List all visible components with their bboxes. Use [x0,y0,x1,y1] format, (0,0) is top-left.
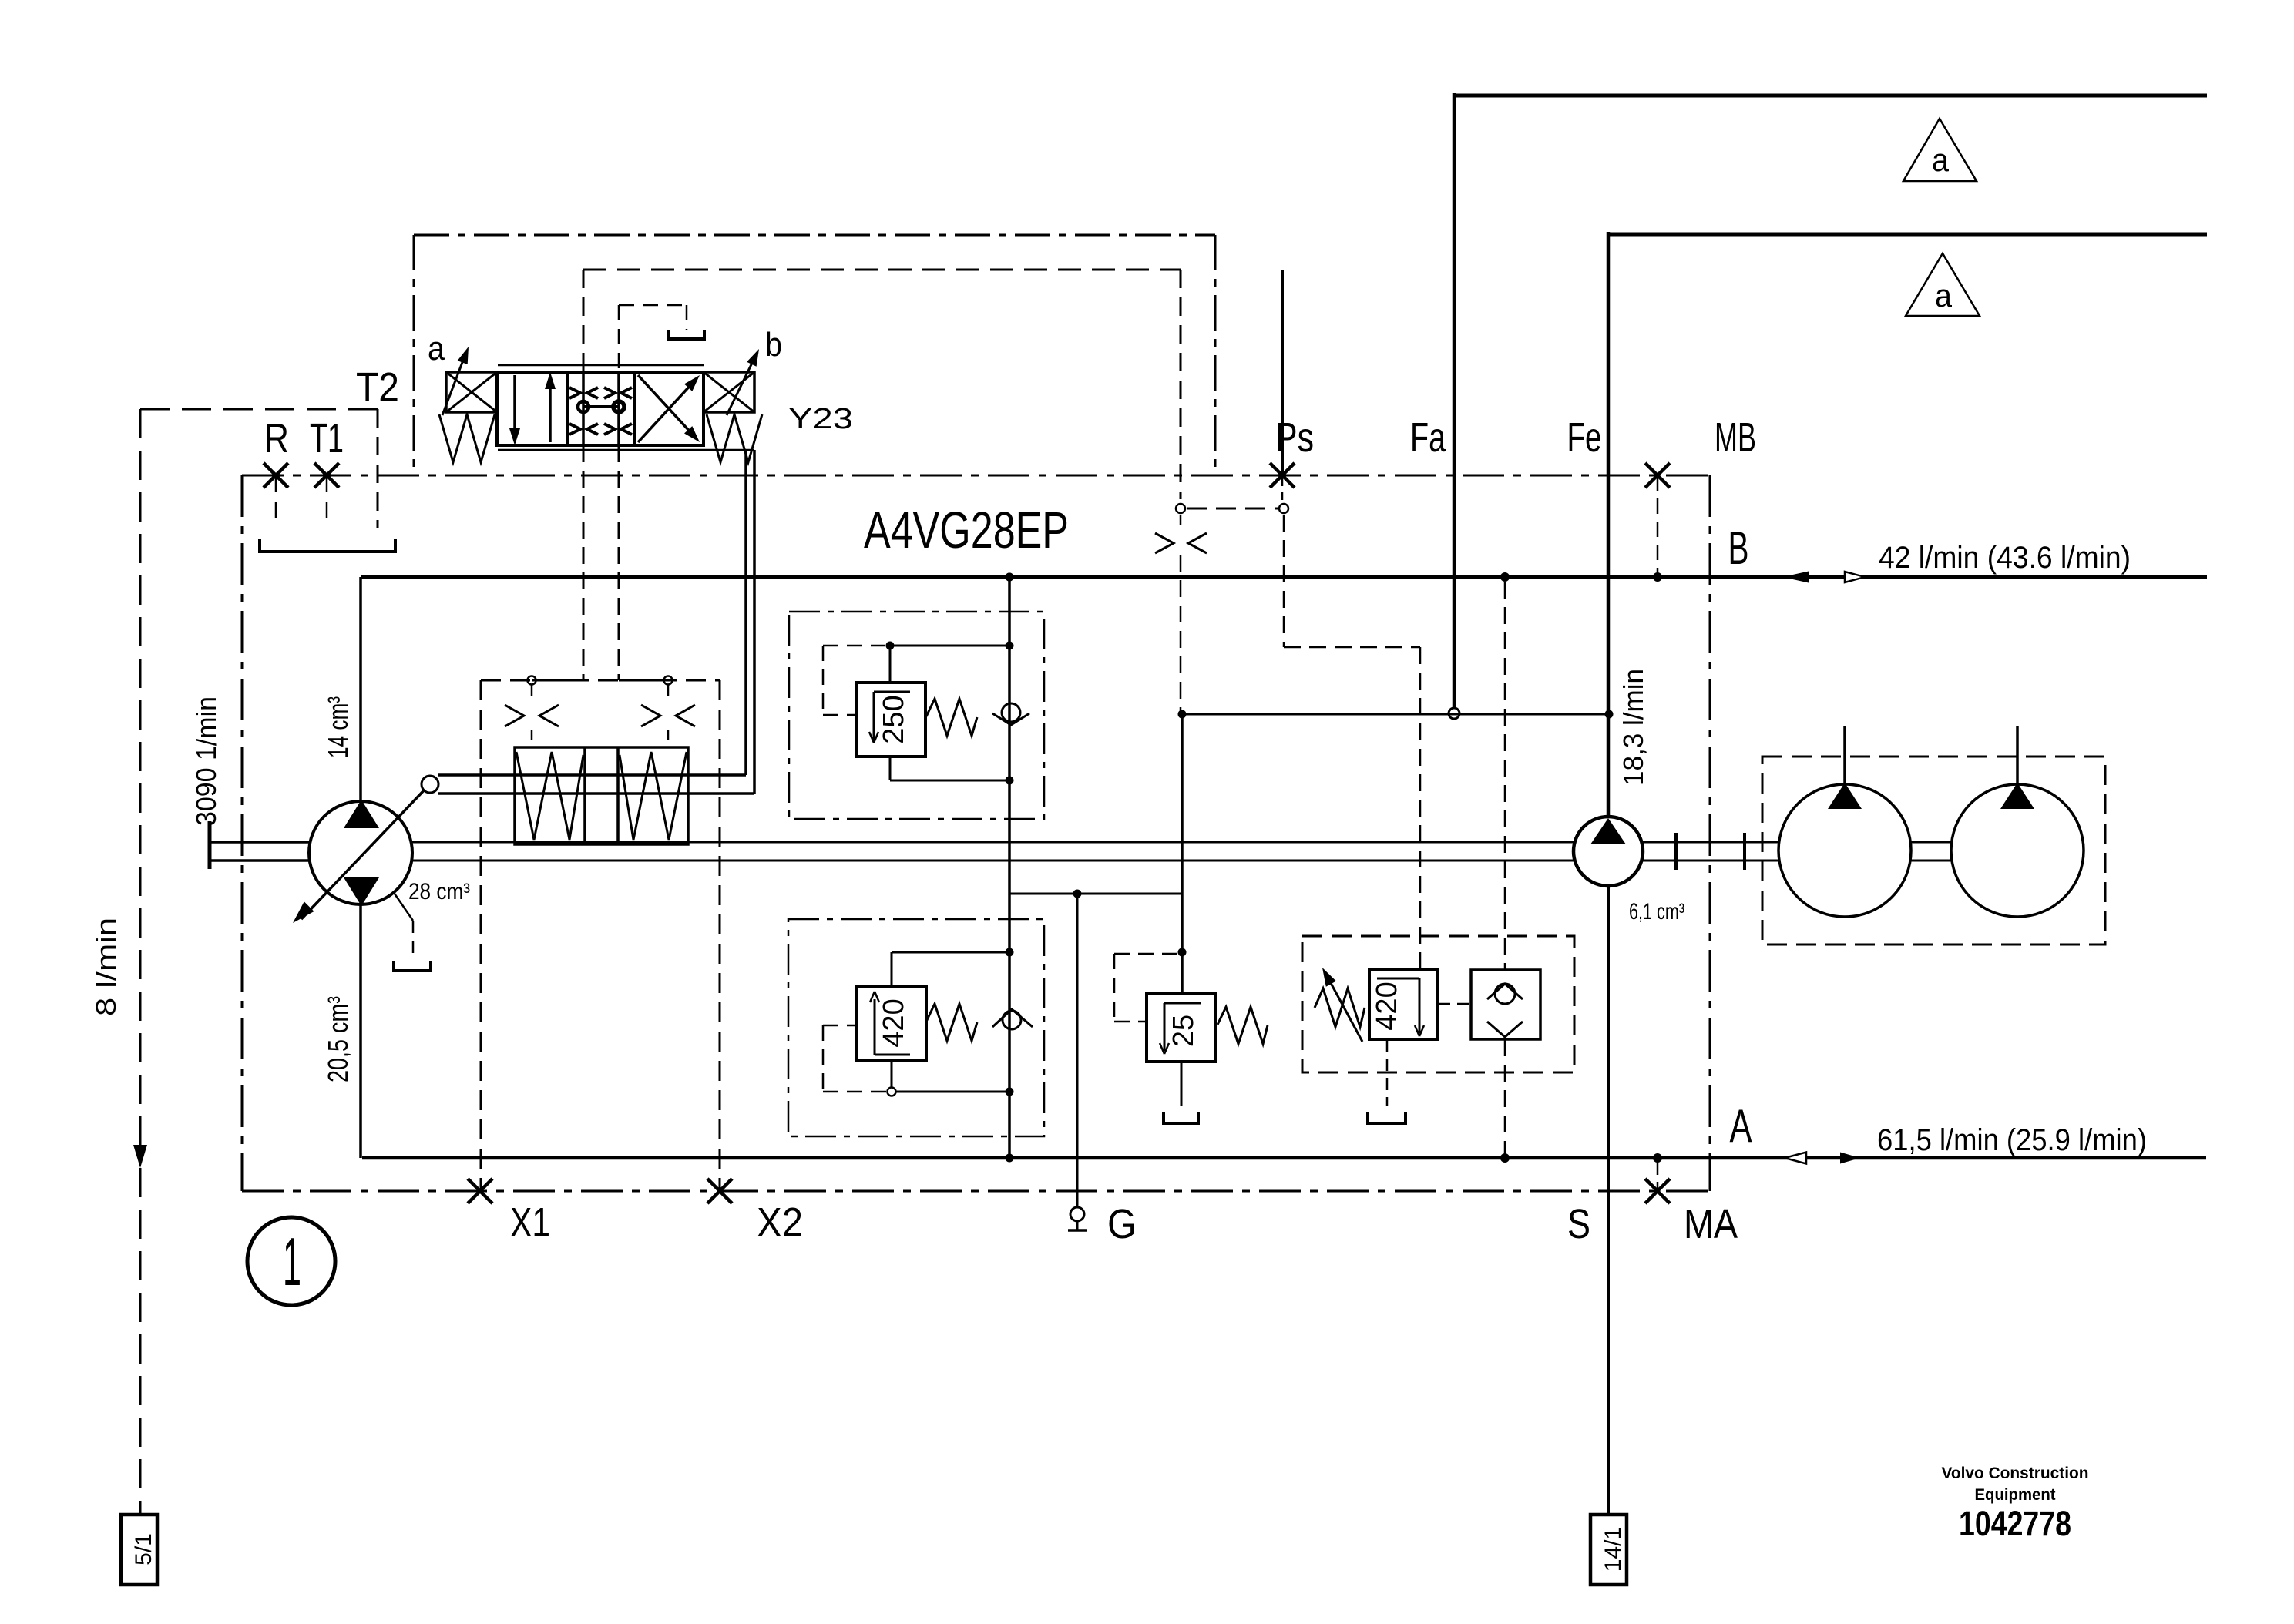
svg-text:A: A [1730,1100,1752,1152]
svg-text:20,5 cm³: 20,5 cm³ [322,996,354,1082]
svg-text:S: S [1567,1201,1590,1247]
svg-text:1: 1 [283,1223,301,1300]
svg-text:MA: MA [1684,1201,1738,1247]
svg-text:5/1: 5/1 [131,1533,156,1565]
svg-text:420: 420 [1371,981,1403,1030]
svg-text:Fa: Fa [1410,414,1446,461]
svg-text:G: G [1107,1201,1137,1247]
svg-text:250: 250 [878,695,910,743]
svg-text:14/1: 14/1 [1600,1527,1626,1572]
svg-text:Fe: Fe [1567,414,1602,461]
svg-text:Y23: Y23 [788,403,853,435]
svg-text:Equipment: Equipment [1975,1486,2056,1504]
svg-text:a: a [1932,142,1950,178]
svg-text:A4VG28EP: A4VG28EP [864,502,1069,559]
svg-text:X1: X1 [510,1200,550,1246]
svg-text:1042778: 1042778 [1959,1504,2071,1543]
svg-text:Volvo Construction: Volvo Construction [1942,1465,2089,1482]
svg-text:42 l/min (43.6 l/min): 42 l/min (43.6 l/min) [1879,541,2131,575]
svg-text:3090 1/min: 3090 1/min [190,696,222,826]
svg-text:B: B [1728,522,1749,574]
svg-text:a: a [1935,277,1953,314]
svg-text:a: a [428,330,445,367]
svg-text:25: 25 [1167,1015,1200,1047]
svg-text:T2: T2 [356,364,399,411]
svg-text:420: 420 [878,998,910,1047]
svg-text:b: b [765,326,782,364]
svg-text:61,5 l/min (25.9 l/min): 61,5 l/min (25.9 l/min) [1877,1123,2147,1157]
svg-text:R: R [264,415,289,461]
svg-text:6,1 cm³: 6,1 cm³ [1629,899,1684,924]
svg-text:18,3 l/min: 18,3 l/min [1617,669,1649,786]
svg-text:8 l/min: 8 l/min [90,918,122,1016]
svg-text:MB: MB [1715,414,1756,461]
svg-text:28 cm³: 28 cm³ [408,879,470,904]
svg-text:T1: T1 [310,415,344,461]
svg-text:X2: X2 [757,1200,803,1246]
svg-text:Ps: Ps [1275,414,1314,461]
svg-text:14 cm³: 14 cm³ [322,696,354,758]
